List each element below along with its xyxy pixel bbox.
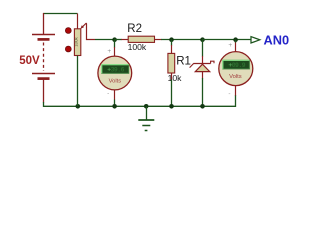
svg-text:10k: 10k xyxy=(168,73,183,83)
svg-text:R2: R2 xyxy=(127,23,142,35)
zener diode D1 xyxy=(190,61,214,71)
node junction V1 bottom xyxy=(112,104,117,109)
voltmeter U1 xyxy=(98,56,132,90)
pot interactive dot lower xyxy=(65,46,71,52)
potentiometer RV1 body xyxy=(74,29,81,56)
wire zener top pin xyxy=(202,40,204,64)
battery BT1 50V xyxy=(32,35,55,79)
wire wiper to junction xyxy=(95,39,115,41)
svg-text:-: - xyxy=(228,90,230,97)
wire R2 right lead xyxy=(155,39,203,41)
svg-text:+: + xyxy=(107,48,111,55)
wire V1 top pin xyxy=(114,40,116,57)
wire top-left from battery to pot xyxy=(43,13,78,15)
pot interactive dot upper xyxy=(65,28,71,34)
svg-text:100k: 100k xyxy=(128,42,147,52)
node junction V1 top xyxy=(112,37,117,42)
node junction pot bottom xyxy=(76,104,81,109)
wire V1 bottom pin xyxy=(114,90,116,106)
wire V2 bottom pin xyxy=(235,86,237,96)
svg-text:AN0: AN0 xyxy=(264,32,290,47)
pot wiper arrow xyxy=(80,23,86,29)
wire bottom rail xyxy=(44,95,236,106)
svg-text:-: - xyxy=(107,90,109,97)
resistor R1 body xyxy=(168,53,175,73)
wire pot top pin xyxy=(77,14,79,29)
wire battery top pin xyxy=(43,13,45,35)
wire R1 bottom pin xyxy=(171,73,173,106)
resistor R2 body xyxy=(128,36,154,42)
svg-text:100k: 100k xyxy=(74,36,79,46)
node junction R1 bottom xyxy=(169,104,174,109)
svg-text:+39.6: +39.6 xyxy=(107,67,124,74)
svg-text:R1: R1 xyxy=(176,55,191,67)
node junction R1 top xyxy=(169,37,174,42)
svg-text:Volts: Volts xyxy=(229,74,242,80)
node junction zener bottom xyxy=(200,104,205,109)
wire R1 top pin xyxy=(171,40,173,54)
node junction V2 top xyxy=(233,37,238,42)
ground xyxy=(138,106,154,130)
node junction zener top xyxy=(200,37,205,42)
wire R2 left lead xyxy=(115,39,129,41)
svg-text:Volts: Volts xyxy=(109,78,122,84)
svg-text:+09.9: +09.9 xyxy=(228,62,245,69)
svg-text:50V: 50V xyxy=(19,55,40,67)
terminal AN0 arrow xyxy=(251,37,260,43)
svg-text:+: + xyxy=(228,42,232,49)
wire pot bottom pin xyxy=(77,56,79,107)
wire battery bottom pin xyxy=(43,80,45,103)
node junction ground xyxy=(144,104,149,109)
wire V2 top pin xyxy=(235,40,237,52)
wire pot wiper to node xyxy=(86,23,95,40)
voltmeter U2 xyxy=(219,52,253,86)
wire zener bottom pin xyxy=(202,72,204,107)
wire top rail to AN0 xyxy=(203,39,252,41)
